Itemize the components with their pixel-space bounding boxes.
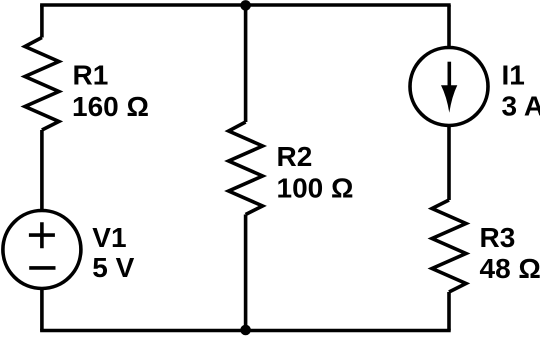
V1 plus sign [29,222,55,248]
svg-text:160 Ω: 160 Ω [72,91,149,122]
I1 arrow head [441,85,457,113]
wire right middle (I1 to R3) [447,127,451,200]
svg-text:V1: V1 [92,222,126,253]
wire left upper (top rail to R1) [40,5,44,38]
wire top rail [40,3,451,7]
wire right upper (top rail to I1) [447,5,451,46]
I1 arrow shaft [447,62,451,95]
resistor R3 [432,200,466,292]
voltage source V1 circle [3,211,81,289]
svg-text:3 A: 3 A [502,91,540,122]
svg-text:R3: R3 [480,222,516,253]
svg-text:R2: R2 [277,141,313,172]
svg-text:100 Ω: 100 Ω [277,173,354,204]
wire left lower (V1 to bottom rail) [40,289,44,331]
resistor R2 [229,122,263,215]
current source I1 circle [410,48,488,126]
wire middle lower (R2 to bottom node) [244,215,248,331]
resistor R1 [25,38,59,131]
wire bottom rail [40,329,451,333]
wire left middle (R1 to V1) [40,130,44,210]
node: bottom junction dot [240,325,251,336]
svg-text:48 Ω: 48 Ω [480,253,540,284]
V1 minus sign [29,266,55,270]
svg-text:R1: R1 [73,60,109,91]
svg-text:5 V: 5 V [92,252,134,283]
wire right lower (R3 to bottom rail) [447,292,451,331]
node: top junction dot [240,0,251,11]
wire middle upper (top node to R2) [244,5,248,122]
svg-text:I1: I1 [502,60,525,91]
